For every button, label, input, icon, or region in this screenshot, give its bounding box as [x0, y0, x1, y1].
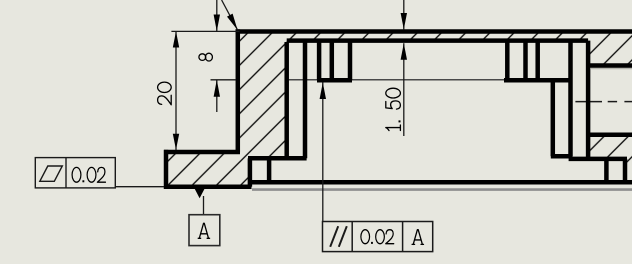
8 top arrow (tip down, outside above) — [214, 15, 220, 32]
corner leader line — [222, 0, 238, 30]
1.50 bottom arrow (tip up) — [401, 43, 407, 60]
gray shadow under corner block bottom — [591, 67, 632, 69]
boss B2 right vertical (deep) — [568, 42, 573, 156]
wall right edge — [284, 42, 289, 158]
parallelism datum ref text — [412, 230, 423, 245]
parallelism symbol slashes — [330, 226, 338, 247]
long bottom edge — [250, 180, 632, 185]
flatness FCF box — [35, 158, 115, 188]
boss B1 bottom edge — [317, 78, 352, 83]
dimension text 20 — [158, 82, 172, 105]
8 bottom extension stub — [211, 79, 237, 81]
plate bottom edge — [287, 38, 588, 43]
parallelism FCF box — [323, 222, 433, 252]
centerline (dashed) right side — [575, 101, 632, 103]
parallelism value text — [361, 230, 394, 244]
band bottom edge — [569, 157, 627, 162]
datum A triangle — [195, 189, 205, 199]
boss B1 middle vertical — [330, 42, 335, 80]
gray shadow line under bottom edge — [252, 188, 632, 191]
20 bottom arrow (tip down) — [173, 134, 179, 150]
channel / step bottom line — [248, 156, 307, 161]
flatness parallelogram symbol — [40, 166, 63, 181]
boss D vertical — [604, 159, 609, 182]
foot left edge — [164, 150, 169, 189]
hatched section: right lower band + sliver — [590, 135, 632, 183]
20 dim line — [175, 31, 177, 150]
foot top edge — [164, 150, 240, 155]
hanging vertical 1 — [248, 158, 253, 186]
datum A box — [189, 215, 220, 246]
corner block bottom edge — [590, 63, 632, 68]
20 top arrow (tip up) — [173, 31, 179, 47]
top extension line — [171, 30, 239, 32]
flatness leader line — [115, 186, 164, 188]
dimension text 8 — [199, 53, 213, 61]
boss B2 left vertical — [505, 42, 510, 80]
boss B2 bottom edge — [504, 78, 573, 83]
8 dim lower shaft — [216, 80, 218, 112]
1.50 upper shaft — [403, 0, 405, 29]
1.50 top arrow (tip down) — [401, 13, 407, 29]
corner leader arrow — [227, 14, 238, 31]
deep boss bottom H1 — [551, 154, 573, 159]
boss B2 middle vertical 2 — [535, 42, 540, 80]
parallelism extension line — [322, 83, 324, 222]
arrowheads — [173, 13, 407, 198]
wall left edge — [236, 29, 241, 152]
dimension thin lines — [115, 0, 404, 222]
deep vertical A — [551, 80, 556, 156]
hanging vertical 2 — [267, 158, 272, 184]
dimension text 1.50 — [386, 88, 401, 130]
band top edge — [590, 133, 632, 138]
datum A text — [198, 223, 209, 238]
boss B2 middle vertical 1 — [523, 42, 528, 80]
deep wall vertical C — [586, 41, 591, 161]
8 bottom arrow (tip up, outside below) — [214, 80, 220, 97]
1.50 lower shaft — [403, 43, 405, 136]
boss B1 right vertical — [348, 42, 353, 80]
part thick edges — [164, 29, 632, 189]
top edge — [236, 29, 632, 34]
parallelism arrow (tip up) — [320, 83, 326, 100]
datum connector line — [203, 196, 205, 215]
foot bottom edge — [164, 185, 252, 190]
channel right vertical — [303, 42, 308, 158]
flatness value text — [72, 167, 105, 182]
8 dim upper shaft — [216, 0, 218, 31]
boss B1 left vertical — [317, 42, 322, 80]
boss E vertical — [623, 159, 628, 182]
thin background step line y=79.8 — [289, 79, 504, 81]
hatched section: main part (wall + top plate + corner block + foot) — [164, 32, 632, 187]
